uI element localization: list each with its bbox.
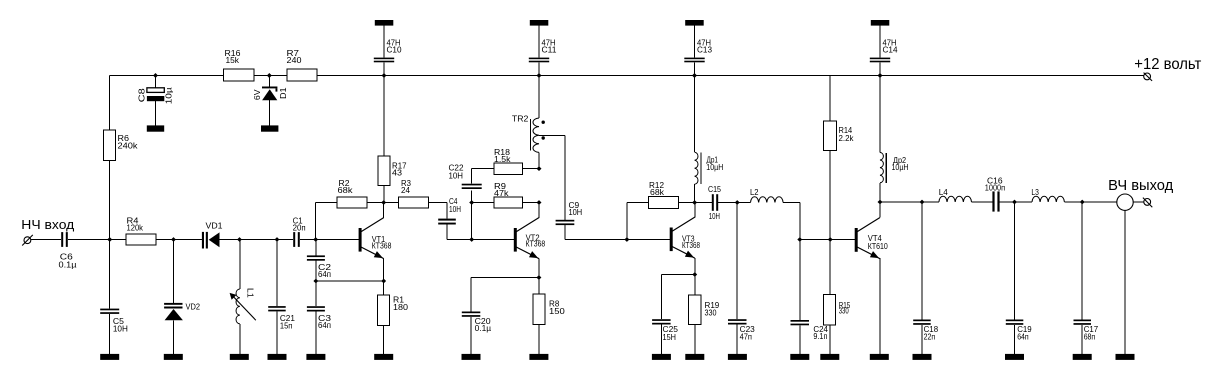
- svg-text:L4: L4: [939, 188, 949, 197]
- wire R14 to base row: [829, 151, 831, 240]
- wire VD2 stem upper: [173, 240, 175, 304]
- capacitor C1: [293, 232, 295, 247]
- junction VT4 collector node: [878, 200, 883, 205]
- wire rail to TR2: [538, 76, 540, 119]
- wire C4 to VT2 base: [447, 225, 514, 240]
- ground below C20: [462, 354, 481, 360]
- junction R12/VT3 collector node: [692, 200, 697, 205]
- ground below R1: [374, 354, 393, 360]
- wire VT1 collector wire: [383, 203, 385, 218]
- svg-text:24: 24: [401, 186, 411, 195]
- ground below output: [1116, 354, 1135, 360]
- junction C18 node: [920, 200, 925, 205]
- wire D1 stem upper: [268, 76, 270, 87]
- transistor VT4: [855, 218, 880, 259]
- capacitor C24: [791, 320, 810, 322]
- junction rail/C11: [537, 73, 542, 78]
- wire C23 node to L2: [737, 202, 750, 204]
- wire R12 left wire: [627, 203, 648, 240]
- ground below D1: [261, 125, 278, 131]
- capacitor C5: [100, 309, 119, 311]
- label C6 0.1µ: [59, 253, 77, 270]
- ground above C14: [871, 20, 890, 26]
- junction rail/C10: [382, 73, 387, 78]
- junction C24 node: [797, 237, 802, 242]
- svg-text:43: 43: [392, 169, 403, 178]
- label R7 240: [287, 49, 303, 65]
- wire R19 top wire: [694, 275, 696, 296]
- resistor R12: [648, 197, 678, 209]
- wire +12V rail long segment: [318, 75, 1144, 77]
- ground below C17: [1073, 354, 1092, 360]
- wire C22 riser upper: [472, 169, 494, 184]
- ground below C24: [790, 354, 809, 360]
- svg-text:VD1: VD1: [206, 222, 224, 231]
- junction input/R6 node: [107, 237, 112, 242]
- label R9 47k: [494, 182, 510, 198]
- label C13: [697, 39, 713, 55]
- wire C9 to VT3 base: [565, 225, 670, 239]
- wire R9 right wire: [523, 202, 539, 204]
- TR2 polarity dot upper: [542, 121, 545, 124]
- svg-text:0.1µ: 0.1µ: [475, 324, 492, 333]
- junction rail/C8: [153, 73, 158, 78]
- svg-text:15Н: 15Н: [663, 333, 677, 342]
- label Др1 10µН: [706, 155, 723, 172]
- ground below C19: [1005, 354, 1024, 360]
- wire C10 upper stem: [383, 26, 385, 58]
- junction R2/R17/R3 node: [381, 200, 386, 205]
- svg-text:47п: 47п: [740, 332, 752, 341]
- resistor R17: [378, 156, 390, 186]
- junction VT1 base node: [313, 237, 318, 242]
- wire C14 lower stem: [879, 62, 881, 75]
- wire rail to Dr1: [694, 76, 696, 153]
- label R19 330: [705, 301, 720, 318]
- wire C11 upper stem: [538, 26, 540, 58]
- wire Dr2 to collector node: [879, 183, 881, 202]
- svg-text:64п: 64п: [318, 321, 331, 330]
- ground below C3: [306, 354, 325, 360]
- label C10: [387, 39, 403, 55]
- svg-text:L3: L3: [1031, 188, 1039, 197]
- wire C19 stem upper: [1014, 202, 1016, 320]
- wire VT2 emitter row: [471, 278, 539, 312]
- label C16 1000п: [985, 177, 1005, 193]
- ground below VD2: [164, 354, 183, 360]
- svg-text:L2: L2: [750, 188, 759, 197]
- svg-text:10Н: 10Н: [569, 208, 583, 217]
- resistor R4: [126, 234, 156, 245]
- junction VT3 emitter node: [692, 272, 697, 277]
- label C19 64п: [1017, 325, 1032, 342]
- svg-text:КТ368: КТ368: [526, 240, 546, 249]
- svg-text:10µН: 10µН: [706, 163, 723, 172]
- wire C18 stem lower: [921, 325, 923, 354]
- svg-text:68k: 68k: [650, 188, 665, 197]
- junction rail/C13: [692, 73, 697, 78]
- resistor R6: [104, 130, 116, 161]
- wire TR2 tap wire: [539, 135, 565, 220]
- wire R1 bottom wire: [383, 326, 385, 355]
- wire D1 stem lower: [268, 100, 270, 125]
- svg-text:120k: 120k: [127, 224, 144, 233]
- wire C17 stem lower: [1081, 325, 1083, 354]
- resistor R1: [378, 295, 390, 326]
- capacitor C11: [529, 58, 549, 63]
- junction R18/TR2 node: [537, 166, 542, 171]
- choke Др2 winding: [880, 152, 883, 182]
- svg-text:0.1µ: 0.1µ: [59, 261, 77, 270]
- junction VD2 node: [171, 237, 176, 242]
- label C15 10Н: [708, 185, 721, 221]
- junction C17 node: [1080, 200, 1085, 205]
- svg-text:2.2k: 2.2k: [839, 134, 855, 143]
- svg-text:240: 240: [287, 56, 303, 65]
- label C1 20п: [293, 217, 306, 233]
- wire C24 stem lower: [799, 325, 801, 354]
- inductor L1 (variable): [230, 289, 256, 324]
- svg-text:C11: C11: [542, 46, 558, 55]
- junction R14/R15 node: [828, 237, 833, 242]
- label R17 43: [392, 162, 407, 178]
- wire C2 stem: [315, 240, 317, 256]
- label C21 15п: [280, 314, 296, 331]
- svg-text:180: 180: [393, 303, 409, 312]
- junction C21 node: [275, 237, 280, 242]
- ground above C11: [530, 20, 549, 26]
- Др2 core bar: [885, 153, 887, 183]
- label C22 10Н: [449, 164, 465, 181]
- label C9 10Н: [569, 201, 583, 217]
- label C18 22п: [924, 325, 939, 342]
- wire +12V rail mid segment: [254, 75, 287, 77]
- capacitor C8 (electrolytic): [147, 88, 164, 101]
- capacitor C13: [684, 58, 704, 63]
- wire C19 stem lower: [1014, 325, 1016, 354]
- ground below L1: [230, 354, 249, 360]
- label C5 10Н: [113, 317, 128, 334]
- capacitor C16: [992, 191, 999, 211]
- junction VT2 emitter node: [536, 275, 541, 280]
- svg-text:47k: 47k: [494, 189, 510, 198]
- svg-text:C14: C14: [883, 46, 899, 55]
- label C2 64п: [318, 263, 332, 279]
- ground below C18: [913, 354, 932, 360]
- capacitor C25: [652, 319, 671, 321]
- resistor R7: [287, 69, 317, 81]
- wire VT1 emitter row: [316, 280, 384, 282]
- svg-text:C15: C15: [708, 185, 721, 194]
- svg-text:6V: 6V: [253, 89, 262, 100]
- wire C8 stem lower: [155, 101, 157, 125]
- zener diode D1: [262, 87, 277, 101]
- wire VT1 emitter wire: [383, 258, 385, 281]
- resistor R16: [224, 69, 255, 81]
- wire C11 lower stem: [538, 62, 540, 75]
- wire C22 riser lower: [471, 190, 473, 239]
- label R4 120k: [127, 217, 144, 233]
- wire collector node to C18 node: [880, 201, 922, 203]
- ground below R19: [685, 354, 704, 360]
- svg-text:15п: 15п: [280, 322, 293, 331]
- svg-text:15k: 15k: [226, 56, 241, 65]
- label C8 10µ: [138, 87, 174, 104]
- svg-text:64п: 64п: [1017, 332, 1028, 341]
- svg-text:1000п: 1000п: [985, 183, 1005, 192]
- wire C13 lower stem: [694, 62, 696, 75]
- wire rail to R17: [383, 76, 385, 157]
- svg-text:10Н: 10Н: [449, 205, 461, 214]
- svg-text:КТ610: КТ610: [868, 242, 888, 251]
- wire R12 right wire: [679, 202, 695, 204]
- inductor L2: [751, 197, 784, 203]
- svg-text:22п: 22п: [924, 332, 936, 341]
- junction VT1 emitter row left: [313, 279, 318, 284]
- wire R4 to VD1: [156, 239, 202, 241]
- wire C17 stem upper: [1081, 202, 1083, 320]
- wire R8 top wire: [538, 278, 540, 295]
- wire rail drop to R6: [109, 76, 111, 131]
- capacitor C21: [268, 306, 286, 308]
- wire C18 stem upper: [921, 202, 923, 320]
- capacitor C9: [556, 220, 575, 222]
- ground below C5: [100, 354, 119, 360]
- wire VT4 collector wire: [879, 202, 881, 217]
- wire VT4 emitter wire: [879, 258, 881, 354]
- wire C21 stem lower: [276, 312, 278, 355]
- TR2 core bar: [529, 119, 531, 151]
- wire rail to Dr2: [879, 76, 881, 153]
- ground below C8: [147, 125, 164, 131]
- wire C8 stem upper: [155, 76, 157, 88]
- svg-text:D1: D1: [279, 87, 288, 99]
- svg-text:10µ: 10µ: [164, 87, 173, 104]
- wire C5 stem upper: [109, 240, 111, 309]
- label C3 64п: [318, 314, 332, 330]
- wire R17 to collector node: [383, 186, 385, 203]
- ground below R15: [820, 354, 839, 360]
- wire C21 stem upper: [276, 240, 278, 307]
- wire C16 to C19 node: [1000, 201, 1015, 203]
- ground above C10: [375, 20, 394, 26]
- wire C25 stem lower: [660, 325, 662, 355]
- capacitor C23: [728, 319, 747, 321]
- wire VT3 emitter row: [661, 275, 694, 320]
- svg-text:C13: C13: [697, 46, 713, 55]
- wire output circle stem: [1124, 210, 1126, 354]
- resistor R19: [689, 295, 702, 325]
- wire C2 to C3: [315, 261, 317, 307]
- wire rail to R14: [829, 76, 831, 122]
- wire R1 top wire: [383, 281, 385, 295]
- svg-text:C8: C8: [138, 87, 147, 102]
- wire input to C6: [31, 239, 61, 241]
- wire C24 stem upper: [799, 240, 801, 321]
- label VT1 KT368: [372, 235, 392, 251]
- wire R15 bottom wire: [829, 325, 831, 354]
- svg-text:330: 330: [705, 309, 717, 318]
- transformer TR2 winding: [533, 118, 539, 152]
- label R6 240k: [118, 134, 139, 151]
- wire L3 to C17 node: [1064, 201, 1082, 203]
- wire +12V rail left segment: [110, 75, 224, 77]
- wire VT2 emitter wire: [538, 258, 540, 277]
- resistor R9: [494, 197, 523, 208]
- label R18 1.5k: [494, 148, 512, 164]
- svg-text:240k: 240k: [118, 142, 139, 151]
- terminal +12 вольт: [1144, 73, 1153, 81]
- svg-text:68k: 68k: [338, 186, 354, 195]
- svg-text:20п: 20п: [293, 224, 306, 233]
- resistor R18: [494, 163, 523, 174]
- wire VD2 stem lower: [173, 320, 175, 354]
- wire L2 to VT4 base: [783, 203, 855, 240]
- svg-text:150: 150: [549, 307, 565, 316]
- svg-text:НЧ вход: НЧ вход: [21, 217, 75, 232]
- wire C14 upper stem: [879, 26, 881, 58]
- resistor R3: [399, 197, 429, 208]
- label C11: [542, 39, 558, 55]
- wire circle to output terminal: [1133, 201, 1144, 203]
- wire C20 stem lower: [470, 317, 472, 354]
- capacitor C3: [307, 306, 325, 308]
- svg-text:L1: L1: [245, 288, 255, 298]
- transistor VT3: [670, 217, 695, 258]
- junction R12 base node: [624, 237, 629, 242]
- transistor VT1: [359, 218, 384, 259]
- svg-text:VD2: VD2: [186, 303, 201, 312]
- junction R9 left node: [469, 200, 474, 205]
- ground above C13: [685, 20, 704, 26]
- ground below VT4: [870, 354, 889, 360]
- svg-text:10Н: 10Н: [709, 212, 720, 221]
- svg-text:68п: 68п: [1084, 332, 1096, 341]
- label VT2 KT368: [526, 233, 546, 248]
- label R1 180: [393, 296, 409, 313]
- junction R9/VT2 collector node: [537, 200, 542, 205]
- svg-text:9.1п: 9.1п: [813, 332, 827, 341]
- wire C17 node to output circle: [1082, 201, 1117, 203]
- capacitor C15: [712, 194, 714, 211]
- wire C6 to R4: [68, 239, 126, 241]
- wire base row to R15: [829, 240, 831, 295]
- wire collector node to C15: [695, 202, 712, 204]
- svg-text:10Н: 10Н: [449, 172, 464, 181]
- ground below C25: [652, 354, 671, 360]
- terminal ВЧ выход: [1143, 198, 1152, 208]
- wire R3 to C4 corner: [429, 203, 448, 219]
- label C25 15Н: [663, 325, 679, 342]
- capacitor C10: [374, 58, 394, 63]
- capacitor C14: [870, 58, 890, 63]
- wire C13 upper stem: [694, 26, 696, 58]
- wire C23 stem lower: [736, 325, 738, 355]
- wire VT2 collector wire: [538, 203, 540, 218]
- resistor R8: [533, 294, 545, 325]
- label VT4 KT610: [868, 234, 888, 251]
- wire C10 lower stem: [383, 62, 385, 75]
- label C24 9.1п: [813, 325, 828, 341]
- wire R8 bottom wire: [538, 325, 540, 355]
- diode VD1: [202, 232, 220, 249]
- capacitor C20: [462, 312, 481, 314]
- wire Dr1 to collector node: [694, 184, 696, 202]
- wire C5 stem lower: [109, 314, 111, 354]
- choke Др1 winding: [695, 152, 698, 184]
- wire R2 left wire: [316, 202, 337, 204]
- capacitor C2: [307, 255, 325, 257]
- ground below R8: [529, 354, 548, 360]
- wire R3 left wire: [384, 202, 399, 204]
- label C14: [883, 39, 899, 55]
- junction rail/C14: [878, 73, 883, 78]
- wire C15 to C23 node: [718, 202, 737, 204]
- junction C23 node: [735, 200, 740, 205]
- capacitor C22: [462, 184, 482, 186]
- wire L1 stem lower: [239, 324, 241, 354]
- capacitor C17: [1074, 320, 1092, 322]
- wire VT3 collector wire: [694, 203, 696, 218]
- wire C19 node to L3: [1015, 201, 1033, 203]
- resistor R2: [337, 197, 367, 208]
- label R16 15k: [225, 49, 242, 65]
- label C17 68п: [1084, 325, 1099, 342]
- Др1 core bar: [700, 153, 702, 184]
- wire VT1 base riser: [315, 203, 317, 240]
- capacitor C19: [1006, 320, 1024, 322]
- label R2 68k: [338, 179, 354, 195]
- label 6V / D1: [253, 87, 288, 100]
- junction rail/D1: [267, 73, 272, 78]
- svg-text:ВЧ выход: ВЧ выход: [1108, 178, 1174, 194]
- capacitor C6: [61, 232, 63, 247]
- svg-text:10µН: 10µН: [892, 163, 909, 172]
- label R3 24: [401, 179, 412, 195]
- wire R6 to input row: [109, 161, 111, 240]
- svg-text:C10: C10: [387, 46, 403, 55]
- label Др2 10µН: [892, 156, 909, 172]
- junction C19 node: [1012, 200, 1017, 205]
- wire VT3 emitter wire: [694, 258, 696, 274]
- wire L1 stem upper: [239, 240, 241, 290]
- label R12 68k: [649, 181, 665, 197]
- inductor L4: [939, 196, 972, 202]
- varicap VD2: [164, 303, 183, 320]
- wire R19 bottom wire: [694, 325, 696, 355]
- wire C1 to VT1 base: [300, 239, 359, 241]
- wire R18 right wire: [523, 168, 539, 170]
- svg-text:КТ368: КТ368: [372, 242, 392, 251]
- wire L4 to C16: [972, 201, 993, 203]
- svg-text:330: 330: [839, 307, 849, 316]
- svg-text:10Н: 10Н: [113, 325, 128, 334]
- label R8 150: [549, 300, 565, 316]
- capacitor C4: [438, 219, 456, 225]
- junction L1 node: [237, 237, 242, 242]
- wire R9 left wire: [472, 202, 494, 204]
- svg-text:КТ368: КТ368: [682, 241, 700, 250]
- junction VT1 emitter row right: [381, 279, 386, 284]
- wire VD1 to C1: [220, 239, 294, 241]
- label C4 10Н: [449, 197, 461, 214]
- wire C23 stem upper: [736, 203, 738, 320]
- ground below C23: [728, 354, 747, 360]
- resistor R15: [824, 295, 836, 325]
- inductor L3: [1032, 196, 1064, 202]
- label C23 47п: [740, 325, 756, 341]
- ground below C21: [268, 354, 287, 360]
